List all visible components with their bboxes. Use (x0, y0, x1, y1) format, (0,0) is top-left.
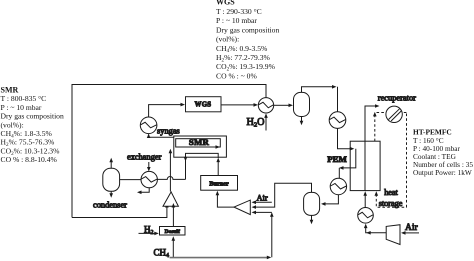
svg-text:heat: heat (384, 188, 398, 197)
svg-text:WGS: WGS (216, 0, 235, 7)
vessel V2 separator (304, 192, 320, 215)
node arrow anode in (350, 147, 355, 151)
svg-text:PEM: PEM (327, 154, 347, 164)
wire bottom recycle to mixer cone (72, 208, 167, 218)
node arrow down (109, 193, 113, 198)
text block WGS data (216, 0, 279, 80)
svg-text:recuperator: recuperator (378, 93, 416, 102)
node arrow coolant into stack (375, 194, 377, 197)
WGS reactor box (186, 97, 222, 112)
node drain arrow down (300, 121, 304, 126)
svg-text:CO % : ~ 0%: CO % : ~ 0% (216, 71, 257, 80)
wire V2 offgas to burner mixer (255, 183, 312, 207)
wire E1 to WGS (149, 105, 182, 117)
wire E2 vent (141, 188, 149, 193)
wire anode channel in stack (343, 149, 356, 168)
label CH4 (154, 247, 170, 259)
wire condenser water out down (110, 191, 112, 194)
svg-text:syngas: syngas (157, 127, 180, 136)
node arrow into V1 (289, 104, 294, 108)
node arrow anode out (339, 166, 344, 170)
svg-text:H2O: H2O (247, 117, 265, 129)
vessel condenser (103, 168, 120, 191)
svg-text:T : 290-330 °C: T : 290-330 °C (216, 7, 262, 16)
label PEM (327, 154, 347, 164)
svg-text:Burner: Burner (209, 180, 229, 187)
fan recuperator circle (386, 106, 402, 122)
svg-text:Air: Air (257, 194, 268, 203)
svg-text:P : ~ 10 mbar: P : ~ 10 mbar (1, 103, 42, 112)
node arrow desulf into cone (172, 203, 176, 208)
node arrow CH4 feed (267, 256, 272, 260)
wire dashed coolant stack to recuperator (375, 113, 384, 142)
node vent arrow left (137, 191, 142, 195)
node arrow feed into SMR (169, 149, 173, 154)
wire CH4 to mixer (271, 214, 273, 258)
wire V2 drain (311, 215, 313, 220)
SMR reactor outer box (174, 136, 227, 157)
node arrow into burner (216, 191, 220, 196)
node arrow into V2 (321, 202, 326, 206)
node arrow air into mixer (252, 201, 257, 205)
svg-text:SMR: SMR (189, 137, 210, 147)
node arrow offgas into mixer (252, 205, 257, 209)
wire flue U inside SMR (186, 153, 219, 179)
heat-exchanger E5 cathode air heater (358, 208, 374, 224)
svg-text:storage: storage (379, 199, 403, 208)
wire flue from SMR to exchanger E2 with crossover hop (157, 177, 185, 180)
label Desulf (165, 229, 180, 235)
node V2 drain arrow (310, 220, 314, 225)
wire anode out down to E4 (338, 168, 340, 178)
node arrow into E3 (254, 103, 259, 107)
svg-text:Air: Air (405, 223, 419, 233)
label Air bottom right (405, 223, 419, 233)
wire E3 to V1 (274, 104, 290, 106)
PEM stack rectangle (350, 141, 380, 190)
heat-exchanger E3 with H2O quench (258, 98, 273, 113)
label exchanger (127, 153, 162, 162)
wire CH4 up into desulf (172, 240, 174, 257)
svg-text:Dry gas composition: Dry gas composition (1, 112, 64, 121)
svg-text:Output Power: 1kW: Output Power: 1kW (413, 168, 472, 177)
svg-text:Dry gas composition: Dry gas composition (216, 25, 279, 34)
wire cathode air E5 to stack (364, 195, 366, 208)
svg-text:CO % : 8.8-10.4%: CO % : 8.8-10.4% (1, 155, 58, 164)
node arrow CH4 into mixer (252, 211, 257, 215)
wire V1 to E6 (302, 87, 334, 93)
node arrow stub into E2 (147, 167, 151, 172)
node arrow H2 into desulf (154, 232, 159, 236)
node arrow inside SMR tube (216, 145, 221, 149)
svg-text:exchanger: exchanger (127, 153, 162, 162)
label SMR (189, 137, 210, 147)
wire top recycle loop (72, 85, 266, 218)
node arrow into desulf bottom (172, 236, 176, 241)
wire CH4 horizontal into mixer (255, 211, 272, 213)
text block SMR data (1, 86, 64, 165)
node steam arrow into cone (165, 203, 169, 208)
label Air middle (257, 194, 268, 203)
heat-exchanger E4 anode gas cooler (330, 178, 346, 194)
svg-text:SMR: SMR (1, 86, 19, 95)
heat-exchanger E1 syngas cooler (140, 117, 157, 134)
svg-text:CH4: CH4 (154, 247, 170, 259)
heat-exchanger E6 reformate cooler (329, 112, 346, 129)
wire V1 drain (301, 117, 303, 122)
svg-text:P : ~ 10 mbar: P : ~ 10 mbar (216, 16, 257, 25)
wire condenser gas out up (110, 162, 112, 169)
svg-text:(vol%):: (vol%): (1, 120, 24, 129)
wire burner flue to SMR (217, 161, 219, 176)
wire compressor to E5 (366, 228, 387, 233)
node arrow toward recuperator (375, 104, 380, 108)
label H2 (144, 224, 154, 236)
wire air inlet to mixer (255, 201, 272, 203)
wire H2O feed (265, 115, 267, 131)
wire E4 to V2 (325, 195, 339, 204)
label condenser (93, 201, 127, 210)
node arrow up into E5 (364, 224, 368, 229)
wire CH4 feed line (170, 257, 269, 259)
node arrow left at bend (366, 231, 371, 235)
wire corner down into E6 (337, 87, 339, 112)
node arrow into compressor (401, 231, 406, 235)
wire H2 into desulf (139, 232, 156, 234)
node arrow flue into SMR (216, 158, 220, 163)
svg-text:Desulf: Desulf (165, 229, 180, 235)
svg-text:WGS: WGS (195, 102, 212, 109)
label WGS (195, 102, 212, 109)
node arrow at corner (332, 85, 337, 89)
wire E2 to condenser (120, 179, 141, 181)
vessel V1 knockout drum (294, 92, 310, 116)
wire desulf to cone (172, 208, 174, 227)
label heat storage (379, 188, 403, 208)
node arrow into E1 bottom (147, 134, 151, 138)
burner box (201, 176, 238, 191)
mixer cone steam/CH4 (163, 192, 178, 206)
label syngas (157, 127, 180, 136)
node arrow into stack bottom (363, 191, 367, 196)
mixer triangle burner feed (234, 200, 250, 215)
node arrow CH4 up (270, 212, 274, 217)
svg-text:(vol%):: (vol%): (216, 35, 239, 44)
wire WGS to E3 (221, 104, 255, 106)
heat-exchanger E2 flue condenser feed (141, 171, 157, 187)
text block HT-PEMFC data (413, 128, 473, 178)
svg-text:HT-PEMFC: HT-PEMFC (413, 128, 452, 137)
node arrow into WGS (181, 103, 186, 107)
wire feed cone to SMR (169, 152, 171, 191)
wire SMR outlet to E1 (149, 134, 174, 137)
compressor air blower (386, 225, 400, 245)
node dashed arrow up (373, 112, 377, 117)
SMR inner tube loop (176, 139, 221, 147)
wire cathode channel through stack (364, 141, 366, 190)
wire air feed (405, 232, 420, 234)
svg-text:condenser: condenser (93, 201, 127, 210)
svg-text:T : 800-835 °C: T : 800-835 °C (1, 94, 47, 103)
wire stack top to recuperator arrow (365, 106, 376, 141)
label-arrow exchanger stub (148, 162, 150, 168)
label Burner (209, 180, 229, 187)
desulf box (160, 227, 186, 236)
svg-text:H2: H2 (144, 224, 154, 236)
node arrow up (109, 158, 113, 163)
node arrow H2O into E3 (264, 113, 268, 118)
label H2O (247, 117, 265, 129)
wire mixer to burner (217, 195, 234, 208)
wire dashed recuperator to heat storage (376, 113, 406, 208)
node arrow flue out of SMR (184, 157, 188, 162)
wire E6 to PEM anode inlet (338, 128, 352, 148)
label recuperator (378, 93, 416, 102)
